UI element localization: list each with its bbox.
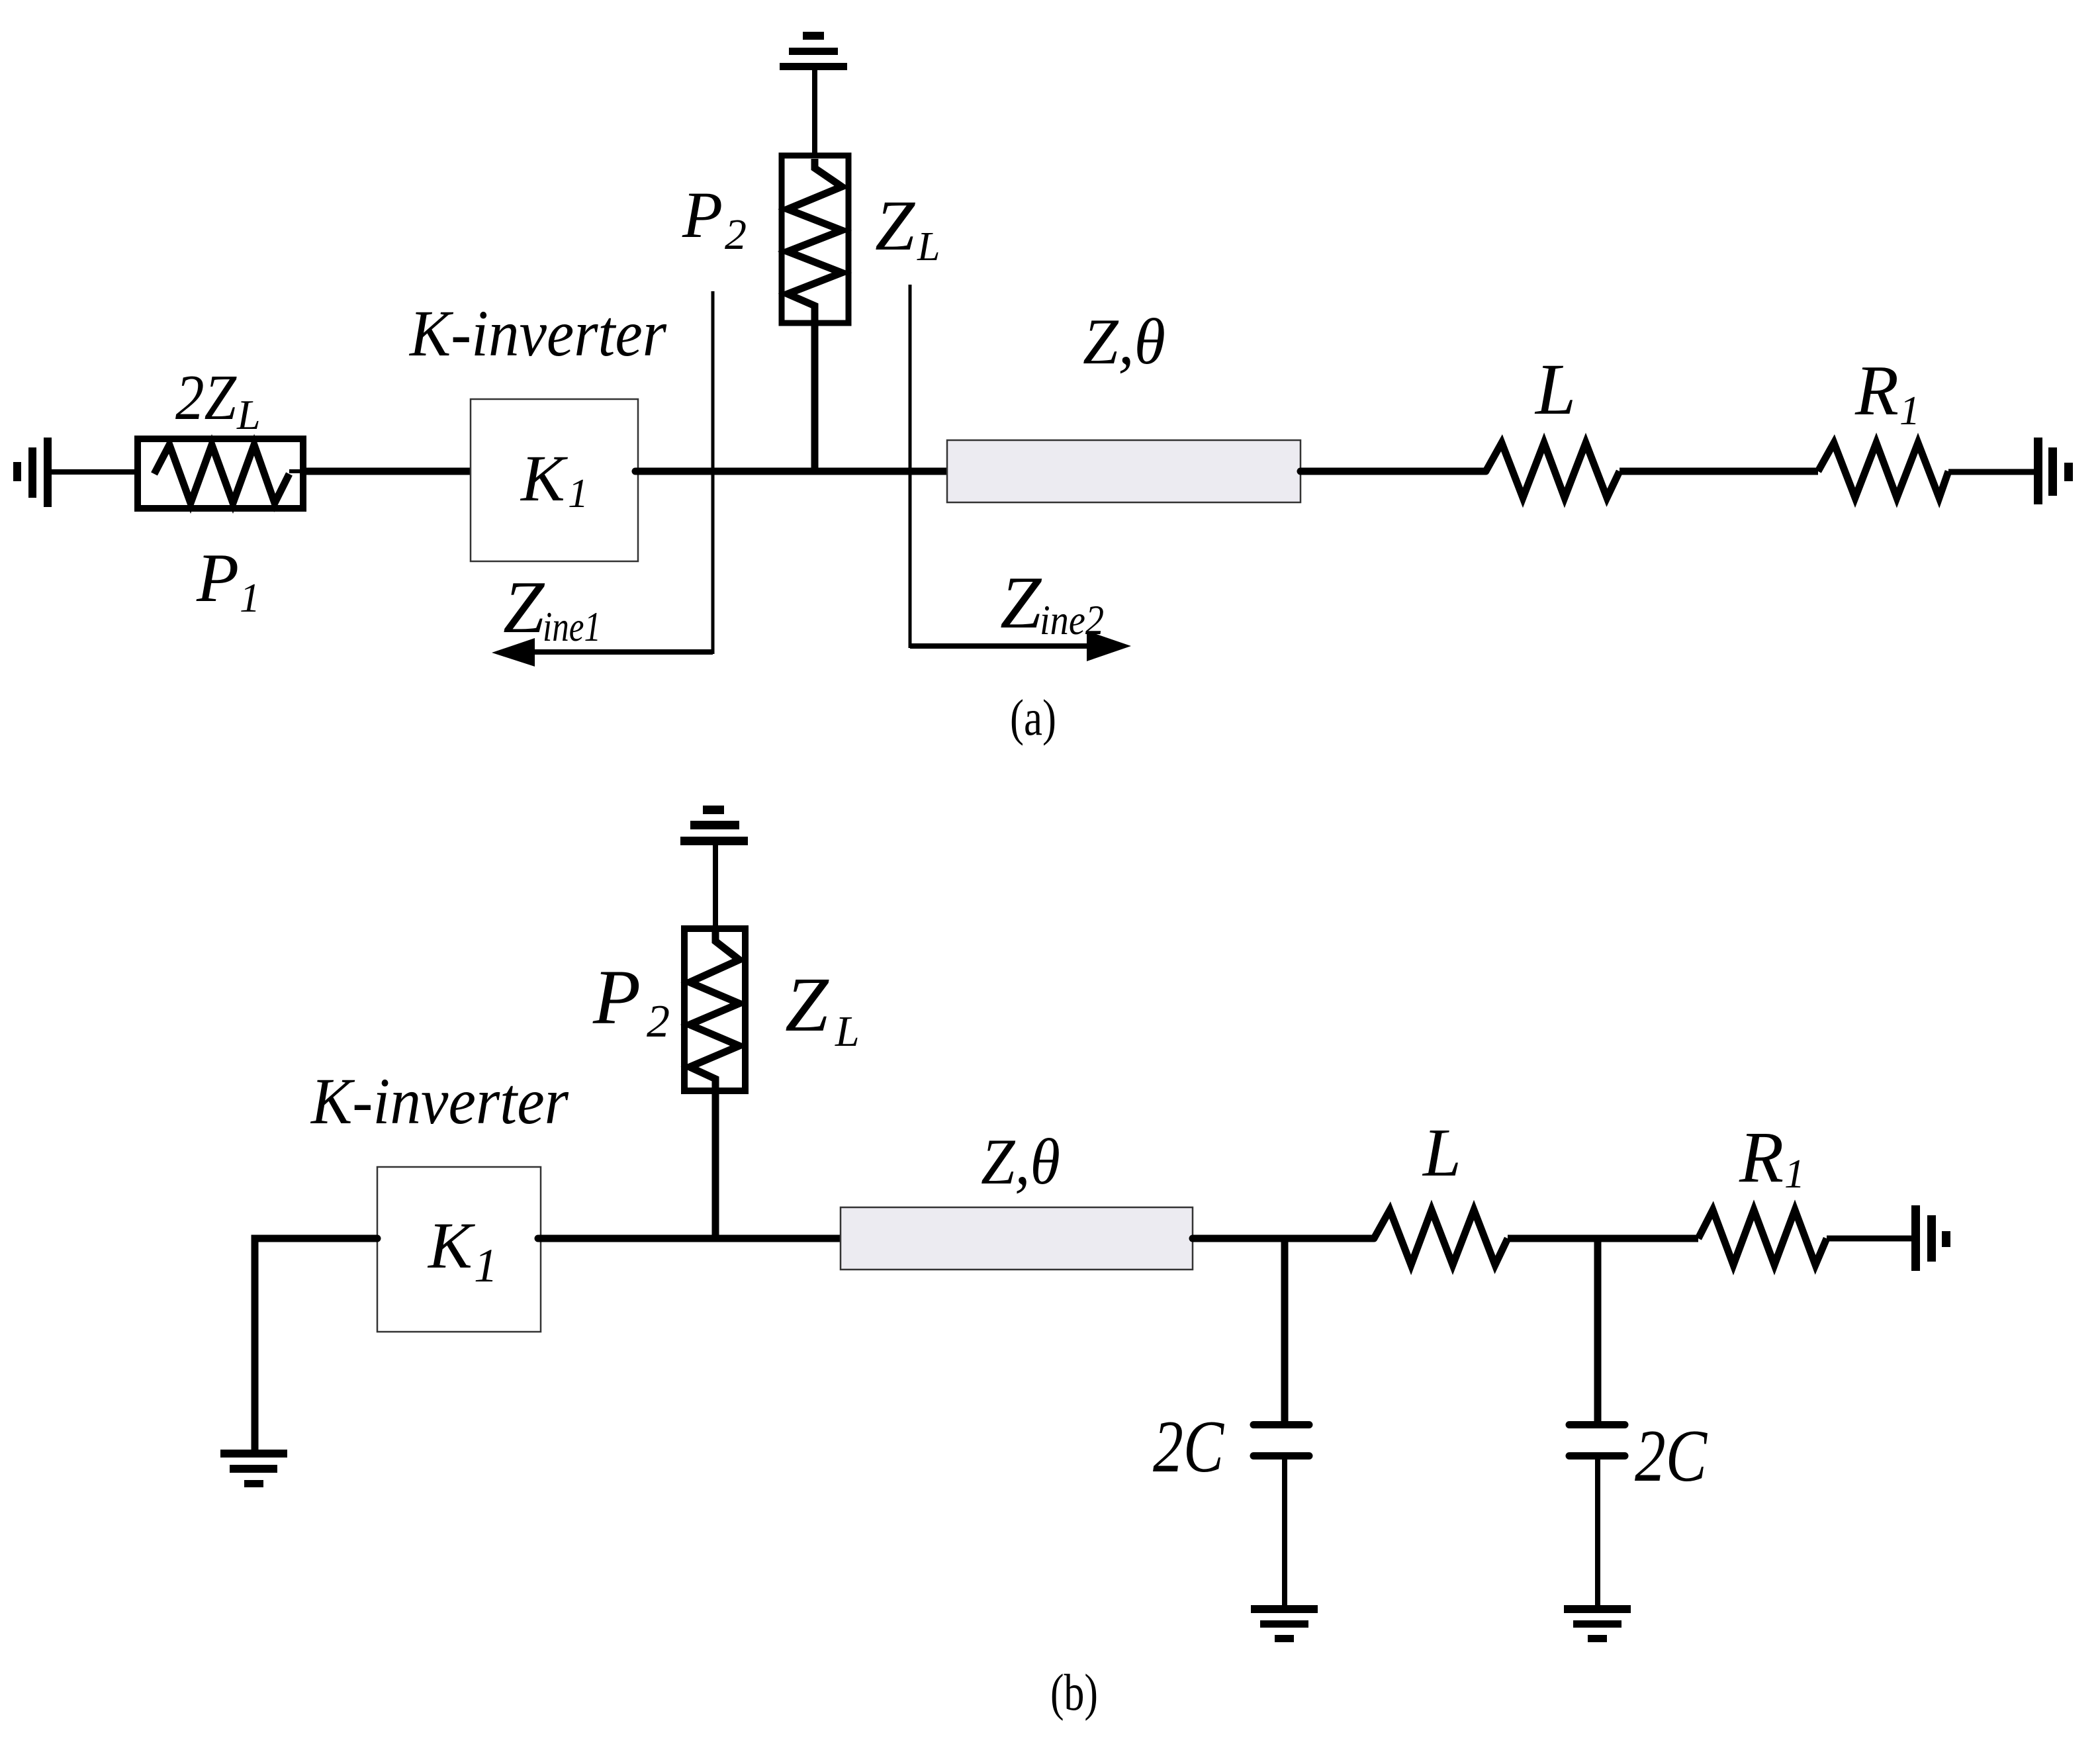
- inductor L (a): [1486, 443, 1620, 498]
- label Zine2 (a): [1000, 562, 1104, 644]
- wire top ground to ZL resistor (a): [812, 66, 817, 159]
- wire transmission line to inductor (a): [1301, 468, 1486, 475]
- wire ZL resistor to main wire (a): [811, 323, 819, 471]
- label P2 (b): [592, 954, 670, 1047]
- svg-text:R: R: [1739, 1117, 1784, 1197]
- wire R1 to right ground (b): [1827, 1236, 1913, 1242]
- svg-text:K-inverter: K-inverter: [310, 1064, 569, 1138]
- node reference line Zine2 plane (a): [909, 285, 912, 648]
- ground right (b): [1911, 1205, 1950, 1271]
- ground right (a): [2034, 438, 2073, 504]
- wire ground to 2ZL resistor: [52, 469, 154, 475]
- label ZL (b): [785, 961, 860, 1056]
- resistor R1 (a): [1818, 443, 1948, 498]
- svg-text:Z,θ: Z,θ: [1083, 306, 1165, 378]
- svg-text:2: 2: [725, 210, 747, 259]
- label Zine1 (a): [503, 567, 601, 650]
- svg-text:L: L: [835, 1007, 860, 1056]
- ground left (a): [13, 438, 52, 507]
- arrow Zine1 (a): [492, 638, 713, 667]
- svg-text:1: 1: [474, 1239, 498, 1292]
- svg-text:1: 1: [568, 471, 588, 516]
- resistor ZL vertical (b): [684, 929, 745, 1091]
- svg-text:2Z: 2Z: [175, 362, 237, 434]
- wire 2ZL to K-inverter (a): [303, 468, 473, 475]
- wire ZL resistor to main wire (b): [712, 1091, 719, 1238]
- svg-text:L: L: [236, 391, 261, 438]
- svg-text:K: K: [427, 1209, 475, 1282]
- svg-text:Z: Z: [1000, 562, 1042, 644]
- ground below capacitor left (b): [1251, 1605, 1318, 1642]
- K-inverter box K1 (b): [377, 1167, 541, 1332]
- wire inductor to R1 with node (b): [1508, 1235, 1698, 1242]
- resistor 2ZL (a): [138, 439, 303, 508]
- svg-text:2C: 2C: [1153, 1406, 1224, 1488]
- wire top ground to ZL resistor (b): [713, 841, 718, 933]
- svg-text:(b): (b): [1050, 1663, 1098, 1721]
- wire left stub and down (b): [255, 1238, 377, 1450]
- transmission line Z,theta (a): [947, 440, 1301, 502]
- svg-text:R: R: [1854, 351, 1899, 430]
- ground top (a): [780, 32, 847, 70]
- wire R1 to right ground (a): [1948, 469, 2035, 475]
- svg-text:1: 1: [1899, 389, 1920, 434]
- svg-text:P: P: [196, 539, 239, 616]
- capacitor 2C left (b): [1254, 1238, 1309, 1605]
- svg-text:ine1: ine1: [543, 603, 601, 650]
- svg-text:L: L: [1534, 349, 1576, 430]
- resistor R1 (b): [1698, 1210, 1827, 1265]
- svg-text:L: L: [917, 224, 940, 269]
- arrow Zine2 (a): [910, 631, 1131, 661]
- svg-text:2C: 2C: [1635, 1415, 1708, 1497]
- svg-text:2: 2: [647, 996, 670, 1047]
- inductor L (b): [1374, 1210, 1508, 1265]
- svg-text:ine2: ine2: [1040, 596, 1104, 643]
- wire K-inverter to transmission line (b): [538, 1235, 841, 1242]
- svg-text:Z: Z: [875, 187, 915, 265]
- svg-text:K: K: [520, 441, 568, 515]
- ground top (b): [680, 806, 748, 845]
- ground below capacitor right (b): [1564, 1605, 1631, 1642]
- svg-text:L: L: [1422, 1115, 1461, 1191]
- label R1 (b): [1739, 1117, 1805, 1197]
- svg-text:(a): (a): [1010, 689, 1056, 746]
- node P2 reference line (a): [711, 291, 715, 654]
- svg-text:Z,θ: Z,θ: [981, 1126, 1060, 1198]
- svg-text:Z: Z: [785, 961, 829, 1048]
- label 2ZL (a): [175, 362, 261, 438]
- svg-text:P: P: [592, 954, 641, 1041]
- capacitor 2C right (b): [1569, 1238, 1625, 1605]
- wire K-inverter to transmission line (a): [635, 468, 947, 475]
- svg-text:1: 1: [240, 576, 260, 621]
- wire transmission line to inductor with node (b): [1193, 1235, 1374, 1242]
- svg-text:P: P: [682, 178, 723, 252]
- svg-text:Z: Z: [503, 567, 545, 649]
- label K1 (a): [520, 441, 588, 516]
- label P2 (a): [682, 178, 747, 259]
- K-inverter box K1 (a): [471, 399, 638, 561]
- label R1 (a): [1854, 351, 1920, 434]
- wire inductor to R1 (a): [1620, 468, 1818, 475]
- resistor ZL vertical (a): [782, 156, 848, 323]
- label P1 (a): [196, 539, 260, 621]
- ground left (b): [220, 1450, 287, 1487]
- label K1 (b): [427, 1209, 498, 1292]
- transmission line Z,theta (b): [841, 1207, 1193, 1270]
- label ZL (a): [875, 187, 940, 269]
- svg-text:K-inverter: K-inverter: [408, 297, 667, 370]
- svg-text:1: 1: [1784, 1152, 1805, 1197]
